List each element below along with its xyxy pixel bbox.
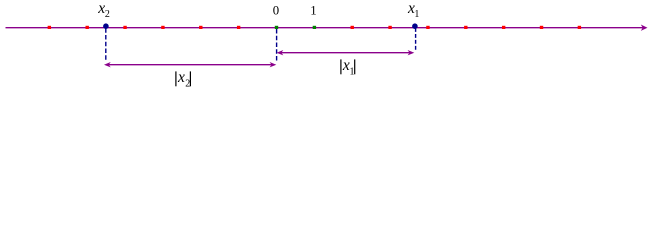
svg-text:0: 0: [273, 3, 279, 17]
svg-text:1: 1: [414, 9, 419, 20]
svg-text:2: 2: [185, 78, 190, 89]
svg-text:2: 2: [105, 9, 110, 20]
dimension arrow |x1| (0 to x1): [277, 50, 415, 55]
wire: main number line axis: [6, 27, 645, 29]
label x2 (above point x2): [97, 0, 110, 20]
dimension arrow |x2| (x2 to 0): [104, 62, 276, 67]
svg-text:1: 1: [310, 3, 316, 17]
node x1 (navy dot): [412, 23, 418, 29]
label x1 (above point x1): [407, 0, 419, 20]
label |x1|: [341, 57, 355, 78]
svg-text:1: 1: [350, 66, 355, 77]
axis right arrowhead: [641, 25, 648, 31]
label |x2|: [176, 69, 191, 90]
tick marks (red squares): [48, 26, 581, 29]
node 1 (green square): [313, 26, 316, 29]
node 0 (green square): [275, 26, 278, 29]
svg-text:x: x: [177, 69, 185, 86]
dashed drop line at x2: [105, 28, 107, 60]
dashed drop line at x1: [415, 28, 417, 50]
node x2 (navy dot): [103, 23, 109, 29]
dashed drop line at 0: [276, 29, 278, 61]
